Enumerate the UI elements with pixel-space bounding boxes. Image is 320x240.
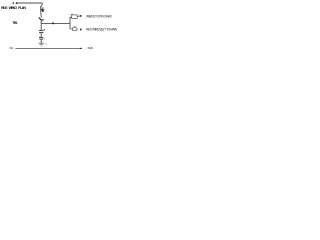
- svg-text:WIRING: WIRING: [9, 6, 18, 10]
- wire C1 to C2: [40, 33, 42, 38]
- terminal dot top output: [80, 15, 82, 17]
- wire bottom baseline: [15, 48, 81, 50]
- wire top horizontal: [18, 2, 43, 4]
- wire top branch: [70, 16, 72, 18]
- wire bottom branch: [70, 28, 72, 30]
- svg-text:RING: RING: [1, 6, 8, 10]
- wire Q1 emitter down: [40, 13, 42, 18]
- wire D1 to node B: [40, 21, 42, 24]
- junction dot node B: [52, 22, 54, 24]
- resistor R1: [72, 15, 78, 19]
- wire C2 to ground: [40, 39, 42, 43]
- terminal dot bottom output: [80, 29, 82, 31]
- wire branch vertical: [69, 17, 71, 29]
- svg-text:WIRES TO PIN 3 MAX: WIRES TO PIN 3 MAX: [86, 15, 113, 19]
- svg-text:TR1: TR1: [12, 21, 18, 25]
- wire node B down: [40, 23, 42, 30]
- svg-text:FIG: FIG: [9, 46, 13, 50]
- wire main horizontal: [41, 22, 70, 24]
- svg-text:PLAN: PLAN: [18, 6, 26, 10]
- svg-text:6 VDC: 6 VDC: [88, 46, 94, 50]
- ground: [39, 42, 44, 44]
- capacitor C1: [39, 29, 44, 31]
- capacitor C2: [39, 36, 43, 38]
- node A terminal tick: [12, 2, 14, 4]
- connector P1: [72, 28, 77, 31]
- transistor Q1: [40, 6, 42, 13]
- wire top corner down: [41, 3, 43, 7]
- diode D1: [39, 18, 42, 21]
- svg-text:RED WIRES(S) T TO MAIN: RED WIRES(S) T TO MAIN: [86, 28, 118, 32]
- junction dot at node A: [16, 2, 18, 4]
